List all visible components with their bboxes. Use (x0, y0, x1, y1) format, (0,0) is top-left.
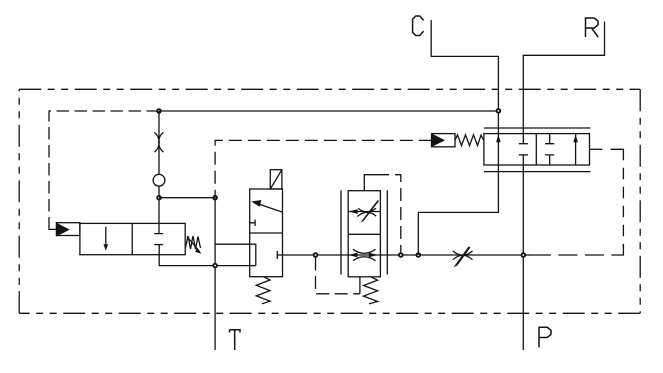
wire pilot line to main valve (dashed) (215, 140, 431, 197)
valve V1 position divider (131, 223, 133, 254)
port label C (413, 16, 424, 36)
wire B to node C (159, 197, 215, 199)
MV right-cell lower closed port (545, 155, 554, 165)
adjustable restrictor on gallery (453, 251, 473, 260)
node P junction on gallery (521, 253, 525, 257)
node junction spring pilot on gallery (314, 253, 318, 257)
node junction FC1 pilot on gallery (399, 253, 403, 257)
wire ball to node B (158, 186, 160, 234)
MV position divider (535, 134, 537, 165)
ball element (153, 174, 165, 186)
node A junction top-left (157, 109, 161, 113)
valve V2 lower-cell right blocked port (277, 251, 282, 259)
spring of V2 (bottom) (256, 277, 270, 304)
fixed restrictor on pilot branch (154, 132, 163, 152)
node B junction (157, 196, 161, 200)
spring of MV (455, 135, 484, 146)
MV right-cell up arrow (575, 134, 577, 165)
main valve MV rails (484, 127, 590, 129)
valve V1 right-cell upper closed port (154, 233, 163, 235)
flow control valve FC1 body (348, 191, 380, 277)
FC1 position divider (348, 233, 380, 235)
wire A down to ball (158, 111, 160, 174)
valve V2 upper-cell blocked port (250, 220, 255, 226)
MV left-cell up arrow (C line) (497, 134, 499, 165)
wire R port drop (523, 22, 604, 144)
wire P line (522, 155, 524, 350)
wire A to C-line (159, 110, 498, 112)
pilot valve V1 pilot box (56, 223, 80, 236)
wire pilot line to left valve (dashed) (49, 111, 159, 224)
pilot triangle of MV (filled) (432, 135, 443, 146)
valve V1 left-cell down arrow (105, 227, 107, 245)
valve V2 upper-cell flow arrow (254, 202, 283, 212)
boundary envelope (dash-dot) (19, 88, 640, 90)
valve V1 body (80, 223, 185, 254)
valve V2 lower-cell port window (215, 244, 256, 265)
wire T line (214, 198, 216, 350)
MV left-cell upper closed port (519, 143, 528, 145)
port label T (230, 330, 241, 350)
node D junction on T line (213, 264, 217, 268)
wire MV pilot to gallery (dashed) (611, 149, 624, 160)
MV left-cell lower closed port (519, 154, 528, 156)
pilot triangle of V1 (filled) (57, 224, 68, 236)
node C junction on T line (213, 196, 217, 200)
solenoid valve V2 body (250, 189, 283, 277)
spring of V1 (adjustable, right side) (186, 236, 201, 249)
wire MV right pilot port (590, 148, 603, 150)
port label R (586, 18, 599, 37)
spring of FC1 (bottom) (363, 277, 377, 304)
main valve MV body (484, 134, 590, 165)
valve V2 position divider (250, 232, 283, 234)
valve V1 right-cell lower closed port (154, 244, 163, 246)
FC1 lower-cell compensated restrictor (353, 249, 376, 260)
wire C port drop (431, 20, 498, 134)
wire FC1 metering pilot (dashed) (376, 175, 401, 253)
port label P (539, 327, 551, 347)
wire FC1 top port (364, 175, 376, 191)
wire C branch to gallery (418, 165, 498, 255)
wire FC1 spring pilot (dashed) (316, 258, 360, 294)
FC1 upper-cell variable restrictor (357, 208, 376, 216)
wire main gallery line (283, 254, 524, 256)
main valve MV pilot box (432, 134, 456, 147)
wire pilot elbow into pilot box (49, 224, 56, 229)
node junction on C line (497, 109, 501, 113)
solenoid box of V2 (270, 170, 282, 189)
flow control valve FC1 side rails (340, 190, 342, 274)
wire V1 bottom to window line (159, 245, 256, 266)
node junction C-branch on gallery (416, 253, 420, 257)
MV right-cell upper closed port (545, 134, 554, 144)
